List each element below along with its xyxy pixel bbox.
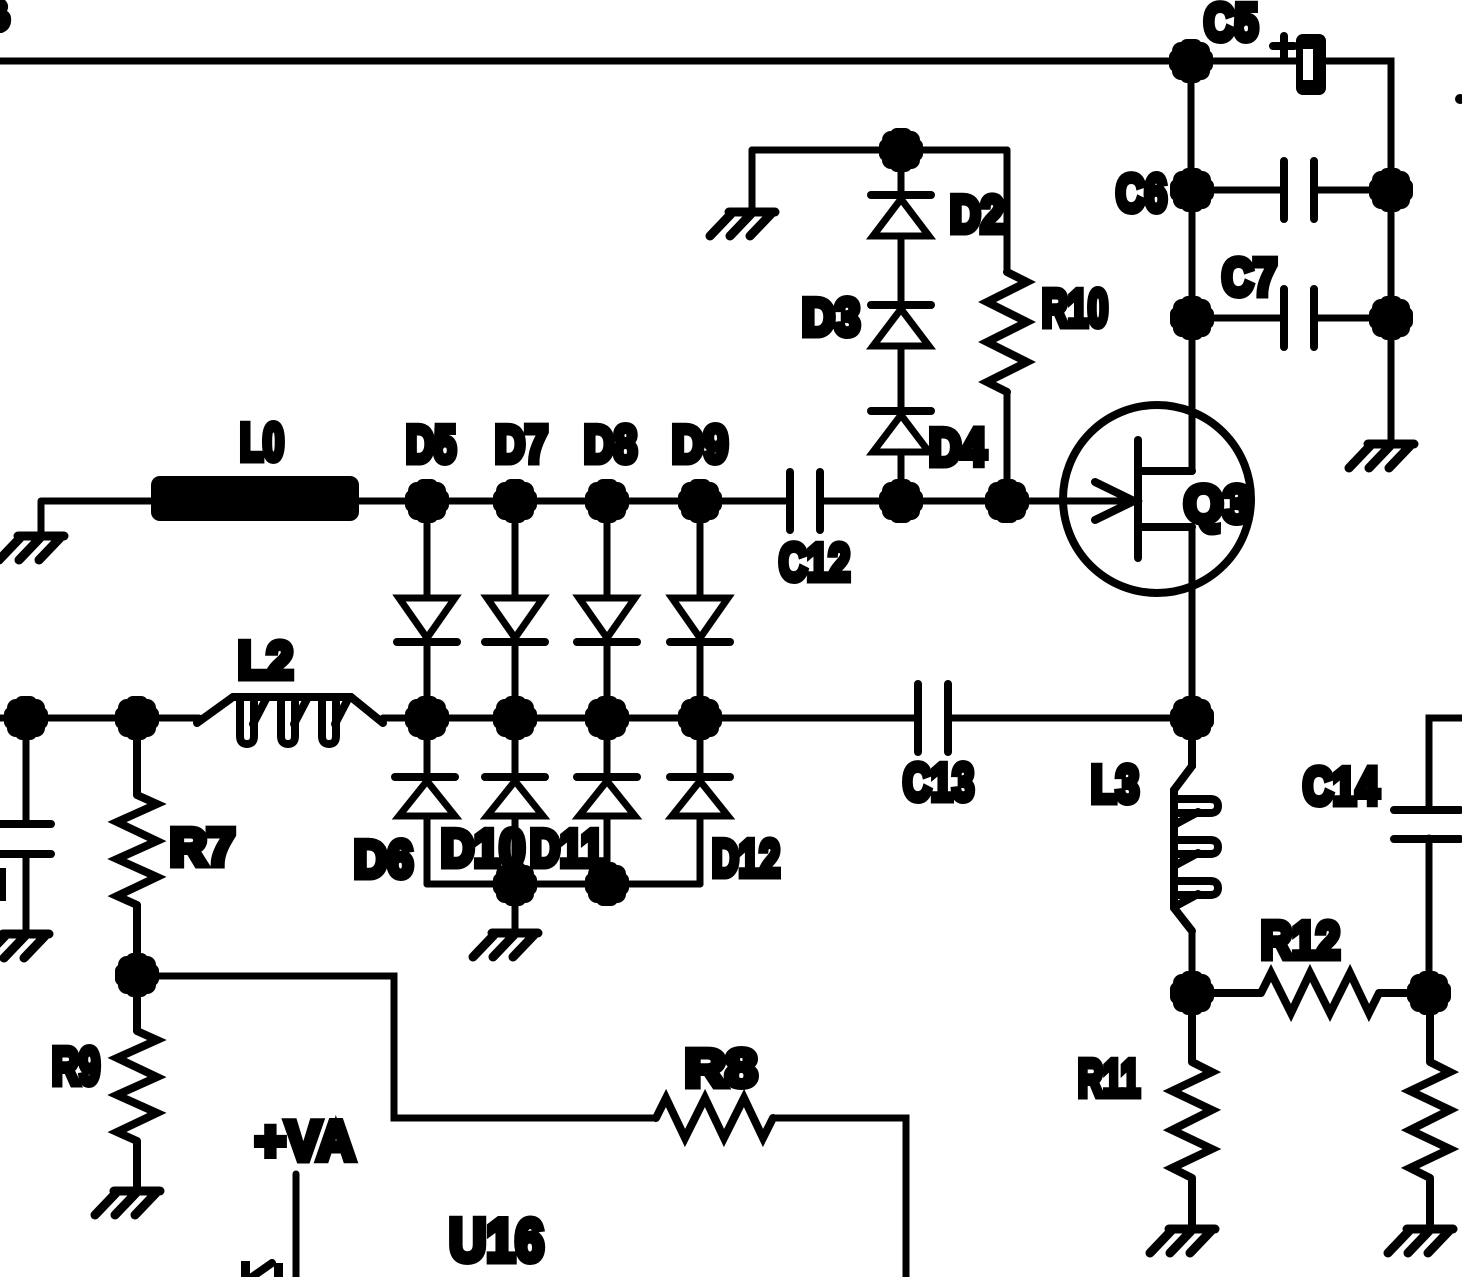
capacitor C5 (polarized) [1273, 34, 1326, 95]
node C1 label fragment [0, 868, 6, 901]
wire D3 to D4 [898, 346, 905, 411]
svg-text:D4: D4 [929, 419, 986, 477]
diode D2 [871, 195, 931, 236]
resistor R12 [1192, 973, 1429, 1013]
node D7-D10 bus junction [493, 696, 537, 740]
wire Q3 source [1189, 527, 1196, 718]
diode D7 vertical [485, 501, 545, 718]
node R7-R9 junction [115, 953, 159, 997]
wire C5 to right column [1326, 61, 1391, 190]
wire main bus y=718 [0, 715, 1192, 722]
svg-text:D5: D5 [406, 416, 456, 474]
svg-text:L3: L3 [1091, 756, 1139, 814]
node C14-R12 junction [1407, 971, 1451, 1015]
node B (clipped label fragment, top-left) [0, 0, 11, 33]
node D5 junction [405, 479, 449, 523]
svg-text:D6: D6 [354, 831, 413, 889]
node D9-D12 bus junction [678, 696, 722, 740]
node gate junction [985, 479, 1029, 523]
node C6 left junction [1170, 168, 1214, 212]
wire gate bus y=501 [427, 498, 1128, 505]
node D9 junction [678, 479, 722, 523]
wire D4 to gate bus [898, 452, 905, 501]
svg-text:R11: R11 [1078, 1050, 1140, 1108]
wire R7 junction to R8 [137, 976, 656, 1118]
tiny fragment right edge [1455, 94, 1462, 104]
resistor R9 [117, 975, 157, 1188]
diode D4 [871, 411, 931, 452]
wire C5 junction down to C6 [1188, 61, 1195, 190]
wire C7 right lead [1314, 315, 1391, 322]
node C7 left junction [1170, 296, 1214, 340]
diode D5 vertical [397, 501, 457, 718]
ground (L0 left) [0, 536, 64, 560]
diode D3 [871, 305, 931, 346]
resistor R11 [1172, 993, 1212, 1226]
wire Q3 drain [1189, 318, 1196, 471]
svg-text:L2: L2 [238, 632, 293, 690]
node D10 bottom junction [493, 862, 537, 906]
capacitor C7 [1284, 289, 1314, 347]
wire L0 left lead and stub [41, 501, 151, 533]
svg-text:R8: R8 [685, 1040, 757, 1098]
wire C7 left lead [1192, 315, 1284, 322]
svg-text:U16: U16 [449, 1207, 544, 1274]
capacitor C1 (clipped, left edge) [0, 824, 51, 854]
svg-text:R10: R10 [1042, 280, 1108, 338]
diode D12 vertical [670, 718, 730, 884]
wire C5 junction to capacitor [1191, 58, 1296, 65]
wire C6 to C7 left column [1189, 190, 1196, 318]
svg-text:R12: R12 [1261, 912, 1340, 970]
node D2 top junction [879, 128, 923, 172]
wire C7 right junction down [1388, 318, 1395, 441]
svg-text:D7: D7 [495, 416, 548, 474]
inductor L2 [197, 697, 383, 744]
node C12-D4 junction [879, 479, 923, 523]
wire matrix bottom rail [427, 881, 700, 888]
wire R10 bottom lead [1004, 392, 1011, 501]
node bus left junction [4, 696, 48, 740]
transistor Q3 [1063, 405, 1251, 593]
wire D2 to D3 [898, 236, 905, 305]
wire C6 right lead [1314, 187, 1391, 194]
svg-text:R9: R9 [52, 1038, 100, 1096]
wire R8 right lead [773, 1118, 906, 1277]
ground (R11) [1150, 1229, 1215, 1253]
node L3-R11-R12 junction [1170, 971, 1214, 1015]
capacitor C14 [1394, 810, 1460, 839]
svg-text:D8: D8 [584, 416, 637, 474]
capacitor C12 [790, 472, 820, 530]
node C7 right junction [1369, 296, 1413, 340]
wire +VA pin [293, 1174, 300, 1277]
wire C14 bottom lead [1426, 838, 1433, 993]
wire C14 top feed [1429, 718, 1462, 810]
svg-text:D12: D12 [712, 830, 780, 888]
diode D9 vertical [670, 501, 730, 718]
resistor R13 (right, label off-canvas) [1410, 993, 1450, 1226]
node C5 junction [1169, 39, 1213, 83]
node Q3 source junction [1170, 696, 1214, 740]
node D5-D6 bus junction [405, 696, 449, 740]
wire C6 left lead [1192, 187, 1284, 194]
svg-text:D9: D9 [672, 416, 728, 474]
svg-text:L0: L0 [240, 414, 284, 472]
svg-text:C6: C6 [1116, 165, 1167, 223]
wire R10 top lead [1004, 150, 1011, 272]
wire left cap top lead [23, 718, 30, 820]
resistor R8 [656, 1098, 773, 1138]
ground (top right) [1349, 444, 1414, 468]
node C6 right junction [1369, 168, 1413, 212]
svg-text:D3: D3 [802, 289, 860, 347]
diode D11 vertical [577, 718, 637, 884]
ground (matrix bottom) [473, 933, 538, 957]
svg-text:C7: C7 [1222, 249, 1277, 307]
svg-text:C14: C14 [1303, 758, 1379, 816]
wire L3 bottom lead [1189, 931, 1196, 993]
ground (top middle) [710, 212, 775, 236]
ground (R9) [95, 1191, 160, 1215]
inductor L3 [1174, 718, 1218, 931]
svg-text:C5: C5 [1204, 0, 1258, 52]
capacitor C13 [918, 684, 948, 752]
node D8 junction [585, 479, 629, 523]
resistor R7 [117, 718, 157, 975]
diode D6 vertical [395, 718, 455, 884]
op-amp U1 label fragment [241, 1261, 283, 1277]
wire top bus y=61 [0, 58, 1191, 65]
wire junction to D2 [898, 150, 905, 195]
svg-text:R7: R7 [170, 819, 235, 877]
node D7 junction [493, 479, 537, 523]
wire top middle net y=150 [752, 147, 1007, 154]
svg-text:+VA: +VA [255, 1109, 355, 1172]
resistor R10 [987, 272, 1027, 392]
wire stub to ground (top middle) [749, 150, 756, 209]
wire ground stem [512, 884, 519, 930]
node D8-D11 bus junction [585, 696, 629, 740]
wire L0 to D5 [359, 498, 427, 505]
wire left cap bottom lead [23, 858, 30, 931]
capacitor C6 [1284, 161, 1314, 219]
ground (right resistor) [1388, 1229, 1453, 1253]
ground (left cap) [0, 934, 49, 958]
svg-text:C13: C13 [903, 754, 974, 812]
diode D10 vertical [485, 718, 545, 884]
diode D8 vertical [577, 501, 637, 718]
inductor L0 [151, 476, 359, 521]
svg-text:D2: D2 [950, 186, 1004, 244]
node D11 bottom junction [585, 862, 629, 906]
svg-text:C12: C12 [779, 534, 850, 592]
wire C6 to C7 right column [1388, 190, 1395, 318]
node R7 top junction [115, 696, 159, 740]
